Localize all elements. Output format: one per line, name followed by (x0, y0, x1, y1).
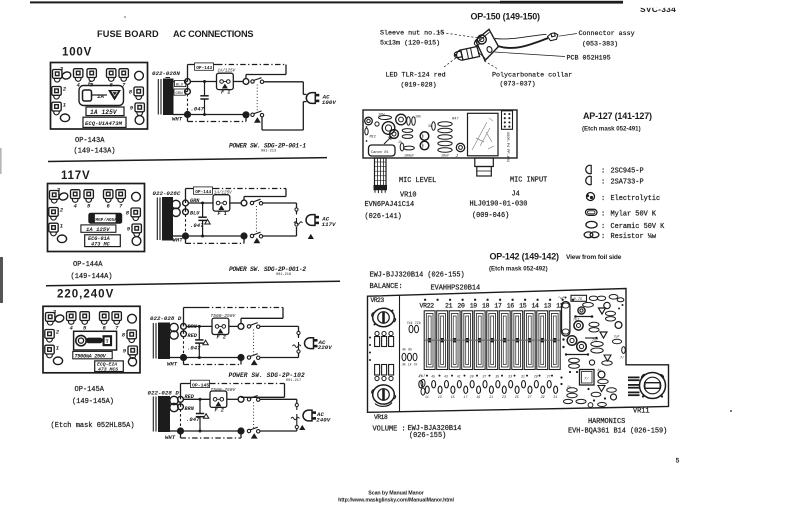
OP-150 bracket plate (476, 29, 499, 60)
pin connector block (502, 111, 513, 130)
fuse holder T500mA 220V (74, 331, 117, 350)
svg-text:4k 6k: 4k 6k (402, 348, 412, 353)
wiper trace across sliders (424, 339, 560, 341)
svg-text:43: 43 (444, 375, 448, 379)
svg-text:29: 29 (534, 375, 538, 379)
svg-text:OP-150 (149-150): OP-150 (149-150) (471, 12, 541, 22)
wire top loop with OP-144 tag (186, 188, 215, 190)
svg-text:1A 125V: 1A 125V (90, 109, 118, 116)
switch junction top 100V (243, 79, 249, 85)
IC chip (580, 370, 595, 386)
svg-text:5x13m (120-015): 5x13m (120-015) (380, 40, 440, 48)
label ECQ-E2A 473 MCS (95, 361, 124, 372)
svg-text:OP-145A: OP-145A (75, 386, 105, 394)
AP-127 board outline (363, 110, 517, 158)
wire to plug bottom 100V (261, 117, 263, 130)
terminal 5 (87, 69, 96, 82)
wire to plug bottom 117V (263, 235, 297, 237)
svg-text:MIC LEVEL: MIC LEVEL (399, 177, 436, 185)
leader LED (444, 58, 457, 68)
plug triangle marker 117V (309, 235, 314, 239)
svg-text:2SC945-P: 2SC945-P (611, 168, 644, 176)
component cluster on AP-127 (365, 117, 373, 125)
svg-text:OP-145: OP-145 (192, 382, 209, 388)
power switch S1 240V (247, 396, 260, 402)
svg-text:POWER SW. SDG-2P-001-1: POWER SW. SDG-2P-001-1 (229, 143, 306, 150)
wire top loop 220V (184, 307, 205, 309)
svg-text:17: 17 (494, 303, 502, 310)
svg-text:WHT: WHT (165, 434, 176, 441)
svg-text:MIC INPUT: MIC INPUT (510, 177, 547, 185)
svg-text:BRN: BRN (185, 406, 195, 412)
svg-text:FUSE BOARD: FUSE BOARD (97, 29, 159, 39)
svg-text:1A: 1A (97, 93, 104, 100)
jack mounting tab (475, 158, 494, 167)
svg-text:ECQ-U1A473M: ECQ-U1A473M (85, 120, 123, 127)
wire bottom dash-dot (187, 115, 189, 122)
resistor trio lower left (402, 353, 406, 361)
hole in plate (486, 46, 493, 53)
svg-text:19: 19 (470, 303, 478, 310)
leader connector (559, 34, 578, 37)
terminal 8 117V (131, 208, 140, 221)
svg-text:OP-144A: OP-144A (73, 261, 103, 269)
svg-text:7/: 7/ (584, 377, 589, 382)
svg-text:Canon 01: Canon 01 (371, 151, 389, 155)
svg-text:25: 25 (515, 395, 519, 399)
svg-text:F 1: F 1 (221, 90, 230, 96)
svg-text:(Etch mask 052-492): (Etch mask 052-492) (489, 266, 548, 273)
AC plug 117V (306, 215, 319, 226)
solder pad oval 220V (54, 314, 65, 323)
svg-text:PCB 052H195: PCB 052H195 (567, 55, 611, 63)
cap triangle marker 117V (205, 219, 210, 224)
svg-text:1PW: 1PW (378, 114, 385, 118)
svg-text::: : (601, 223, 605, 231)
terminal 4 117V (71, 190, 80, 203)
svg-text:EVN6PAJ41C14: EVN6PAJ41C14 (365, 201, 415, 209)
svg-text:VOLUME :: VOLUME : (373, 426, 406, 434)
svg-text:20: 20 (457, 303, 465, 310)
svg-text:45: 45 (431, 375, 435, 379)
svg-text:OP-144: OP-144 (195, 190, 211, 195)
connector pin bottom 240V (295, 425, 298, 428)
leader collar (484, 61, 498, 69)
VR10 pot rotor (382, 122, 395, 135)
OP-142 board outline (368, 289, 669, 413)
svg-text:GRN: GRN (175, 92, 183, 96)
svg-text:.047: .047 (186, 416, 200, 423)
resistor pair mid (421, 379, 425, 387)
svg-text:14: 14 (531, 303, 539, 310)
legend 2SC945-P (586, 165, 591, 173)
svg-text:117V: 117V (322, 221, 336, 228)
wire WHT rail 220V (186, 357, 238, 359)
wire label BLU (175, 80, 186, 86)
svg-text:VR23: VR23 (371, 297, 385, 304)
wire BLU rail (190, 81, 216, 83)
electrolytic cap C41 (562, 302, 570, 337)
speck top left (124, 16, 126, 18)
wire WHT rail (190, 114, 243, 116)
svg-text::: : (601, 168, 605, 176)
svg-text::: : (601, 179, 605, 187)
VR10 shaft (374, 158, 387, 193)
terminal 3 117V (50, 191, 59, 204)
svg-text:100V: 100V (62, 47, 92, 59)
svg-text:WHT: WHT (173, 237, 184, 244)
svg-text:WHT: WHT (167, 361, 178, 368)
wire to plug top 100V (264, 81, 304, 83)
mount hole top right (135, 71, 144, 80)
svg-text:(Etch mask 052-491): (Etch mask 052-491) (582, 126, 641, 133)
solder pad oval lower 117V (57, 235, 66, 243)
svg-text:21: 21 (445, 303, 453, 310)
leader PCB (495, 52, 566, 57)
svg-text:EVAHHPS20B14: EVAHHPS20B14 (431, 285, 481, 293)
svg-text:022-028 D: 022-028 D (150, 315, 182, 322)
label 1A 125V (86, 107, 124, 116)
svg-text:HLJ0190-01-030: HLJ0190-01-030 (470, 201, 528, 209)
left edge scan streak (0, 257, 3, 303)
label T500mA 250V (73, 351, 112, 358)
transformer T 117V (157, 198, 172, 241)
solder pad oval lower 220V (53, 357, 62, 365)
VR10 arrow (384, 137, 392, 145)
solder pad oval 117V (58, 192, 69, 201)
svg-text:11: 11 (425, 395, 429, 399)
svg-text:7k7: 7k7 (419, 374, 426, 379)
svg-text:001-216: 001-216 (276, 273, 291, 277)
svg-text:27: 27 (528, 395, 532, 399)
connector pin bottom 220V (297, 350, 300, 353)
svg-text:2k: 2k (567, 385, 571, 389)
svg-text:T500-250V: T500-250V (211, 313, 237, 319)
svg-text:.047: .047 (191, 106, 205, 113)
terminal 3 (53, 70, 62, 83)
connector pin bottom 117V (295, 223, 298, 226)
svg-text:21: 21 (489, 395, 493, 399)
svg-text:"uF: "uF (558, 296, 565, 301)
terminal 1 (52, 102, 61, 115)
svg-text:17: 17 (464, 395, 468, 399)
svg-text:7uF: 7uF (614, 335, 620, 339)
terminal 6 (107, 69, 116, 82)
transformer tap loops 240V (170, 396, 178, 404)
OP-142 left column divider (399, 295, 401, 412)
junction BRN 220V (181, 324, 187, 330)
svg-text:41: 41 (457, 375, 461, 379)
junction WHT 117V (173, 235, 186, 237)
svg-text:29: 29 (541, 395, 545, 399)
svg-text:LED TLR-124 red: LED TLR-124 red (386, 72, 446, 80)
connector pin top 220V (297, 331, 300, 334)
pad dots above sliders (424, 299, 426, 301)
slide potentiometers VR22-VR12 (424, 311, 435, 370)
fuse F1 117V (213, 195, 230, 211)
svg-text:F 2: F 2 (217, 335, 226, 341)
mic jack J4 body (468, 113, 499, 156)
svg-text:15: 15 (451, 395, 455, 399)
svg-text:HARMONICS: HARMONICS (588, 418, 625, 426)
svg-text:10k: 10k (415, 115, 421, 119)
capacitor .047 240V (196, 399, 204, 431)
connector pin top 240V (295, 403, 298, 406)
switch junction top 240V (238, 396, 244, 402)
connector assy drawing (548, 33, 558, 41)
mount hole bottom right (135, 116, 144, 125)
svg-text:23: 23 (502, 395, 506, 399)
svg-text:0-75: 0-75 (574, 298, 583, 302)
svg-text:(019-028): (019-028) (401, 82, 437, 90)
wire junction bus vertical (187, 65, 189, 82)
svg-text:VR18: VR18 (374, 414, 388, 421)
svg-text:19: 19 (476, 395, 480, 399)
connector pin top 117V (295, 208, 298, 211)
svg-text:R47: R47 (452, 118, 459, 122)
svg-text:39: 39 (470, 375, 474, 379)
wire bus vertical 220V (183, 308, 185, 327)
svg-text:AP-127 (141-127): AP-127 (141-127) (583, 111, 652, 121)
svg-text:2SA733-P: 2SA733-P (611, 179, 644, 187)
svg-text:7k7: 7k7 (573, 318, 580, 323)
svg-text:16: 16 (507, 303, 515, 310)
section separator line (48, 158, 327, 162)
svg-text:100uF: 100uF (404, 155, 415, 159)
terminal 4 220V (67, 312, 76, 325)
terminal 5 117V (84, 190, 93, 203)
junction WHT 220V (170, 357, 184, 359)
transformer T 100V (158, 78, 173, 115)
solder pad oval lower (60, 114, 69, 122)
terminal 6 220V (100, 312, 109, 325)
svg-text:F 1: F 1 (218, 211, 227, 217)
svg-text:VR22: VR22 (420, 303, 435, 310)
AC plug 240V (303, 410, 316, 421)
VR10 pot body (369, 145, 396, 156)
svg-text:3k 1k 7k: 3k 1k 7k (402, 363, 417, 367)
svg-text:VR10: VR10 (400, 192, 417, 200)
wire to plug bottom 220V (260, 357, 299, 359)
terminal 4 (74, 69, 83, 82)
svg-text:T500mA 250V: T500mA 250V (75, 353, 107, 359)
switch junction top 220V (238, 324, 244, 330)
svg-text:240V: 240V (316, 416, 330, 423)
resistor row under sliders (419, 381, 423, 388)
label ECQ-U1A473M (83, 117, 126, 127)
mount hole bottom right 117V (132, 237, 141, 246)
transformer T 240V (153, 397, 169, 432)
terminal 2 (52, 87, 61, 100)
svg-text:AC CONNECTIONS: AC CONNECTIONS (173, 29, 253, 39)
terminal 9 117V (132, 224, 141, 237)
svg-text::: : (601, 233, 605, 241)
junction BRN 240V (178, 404, 184, 410)
svg-text:13: 13 (544, 303, 552, 310)
svg-text:(053-383): (053-383) (582, 41, 618, 49)
svg-text:Connector assy: Connector assy (579, 30, 635, 38)
wire to plug top 240V (260, 398, 297, 400)
svg-text:OP-143A: OP-143A (75, 137, 105, 145)
svg-text:EWJ-BJJ320B14 (026-155): EWJ-BJJ320B14 (026-155) (370, 272, 465, 280)
transformer tap loops 220V (170, 323, 178, 331)
svg-text:http://www.maskglinsky.com/Man: http://www.maskglinsky.com/ManualManor.h… (338, 498, 454, 504)
fuse board OP-144A outline (48, 184, 145, 252)
fuse F1 100V (217, 73, 234, 89)
label 1A 125V 117V (81, 225, 116, 232)
svg-text:(009-046): (009-046) (472, 212, 509, 220)
junction WHT 240V (170, 430, 181, 432)
svg-text:18: 18 (482, 303, 490, 310)
pad dots column (369, 337, 371, 339)
svg-text:001-217: 001-217 (286, 379, 301, 383)
svg-text:OSA: OSA (109, 218, 117, 223)
svg-text:1: 1 (60, 223, 63, 230)
terminal 3 220V (46, 313, 55, 326)
svg-text:3k: 3k (428, 124, 432, 128)
svg-text:31: 31 (553, 395, 557, 399)
terminal 8 220V (127, 330, 136, 343)
svg-text:MIC: MIC (370, 136, 377, 140)
fuse board OP-145A outline (43, 306, 140, 373)
svg-text:1A 125V: 1A 125V (86, 226, 110, 233)
components around IC (567, 388, 577, 392)
svg-text:022-028C: 022-028C (153, 190, 181, 197)
solder pad oval (61, 71, 72, 80)
transformer tap loops 117V (172, 200, 180, 208)
pot VR11 (640, 373, 666, 399)
svg-text:10uF: 10uF (441, 155, 450, 159)
svg-text:(073-037): (073-037) (500, 81, 536, 89)
svg-text::: : (601, 211, 605, 219)
wire bottom dash-dot 240V (180, 431, 182, 438)
terminal 1 117V (49, 223, 58, 236)
fuse F holder (79, 86, 124, 106)
mount hole top right 220V (128, 314, 137, 323)
svg-text:EVH-BQA361 B14 (026-159): EVH-BQA361 B14 (026-159) (568, 427, 667, 435)
terminal 6 117V (104, 190, 113, 203)
svg-text:1: 1 (63, 102, 66, 109)
LED tip (454, 51, 462, 58)
section separator line 2 (46, 281, 340, 286)
svg-text:1k: 1k (398, 140, 402, 144)
terminal 7 117V (116, 190, 125, 203)
svg-text:37: 37 (483, 375, 487, 379)
terminal 2 220V (45, 330, 54, 343)
sleeve nut on plate (477, 35, 486, 44)
svg-text:473 MCS: 473 MCS (98, 366, 118, 372)
svg-text:MGP: MGP (96, 218, 104, 223)
svg-text:27: 27 (547, 375, 551, 379)
svg-text:Resistor ¼w: Resistor ¼w (611, 233, 657, 241)
svg-text:1A/125V: 1A/125V (218, 69, 236, 74)
capacitor .047 220V (195, 326, 203, 357)
AC plug 220V (305, 338, 318, 349)
terminal 9 220V (128, 346, 137, 359)
svg-text:15: 15 (519, 303, 527, 310)
AC plug 100V (306, 93, 319, 104)
wire bus vertical 117V (185, 189, 187, 204)
junction BLU (185, 79, 191, 85)
fuse board OP-143A outline (51, 63, 148, 130)
terminal 2 117V (49, 208, 58, 221)
svg-text:35: 35 (495, 375, 499, 379)
wire WHT rail 240V (183, 430, 238, 432)
legend ceramic (586, 221, 597, 228)
junction GRN (185, 89, 191, 95)
jumper wire with dots (574, 315, 577, 318)
terminal 7 (119, 69, 128, 82)
svg-text:001-213: 001-213 (261, 150, 276, 154)
wire RED rail 240V (183, 398, 210, 400)
wire GRN rail 117V (188, 202, 213, 204)
wire bottom dash-dot 220V (183, 358, 185, 365)
solder pads VR11 (628, 377, 640, 382)
svg-text:OP-143: OP-143 (196, 66, 212, 71)
resistor pair upper left (409, 325, 413, 333)
components second row right (583, 303, 594, 308)
component row top right (571, 295, 587, 301)
junction BLU 117V (183, 209, 189, 215)
svg-text:100V: 100V (322, 99, 336, 106)
legend mylar (586, 209, 598, 215)
fuse F2 220V (212, 318, 229, 334)
mount hole top right 117V (132, 192, 141, 201)
wire to plug top 117V (263, 202, 297, 204)
svg-text:33: 33 (508, 375, 512, 379)
power switch S1 117V (250, 199, 262, 205)
svg-text:J4: J4 (512, 191, 520, 199)
svg-text:(026-141): (026-141) (365, 213, 402, 221)
svg-text:RED: RED (188, 333, 198, 339)
svg-text:74k 72k: 74k 72k (407, 321, 421, 326)
cap triangle marker 220V (203, 340, 208, 345)
svg-text:.047: .047 (187, 345, 201, 352)
switch junction bottom 220V (238, 355, 244, 361)
svg-text:.047: .047 (190, 222, 204, 229)
junction RED 220V (181, 331, 187, 337)
svg-text:7x7: 7x7 (592, 338, 598, 342)
svg-text:117V: 117V (61, 170, 90, 182)
pot VR18 (373, 385, 395, 404)
junction GRN 117V (183, 200, 189, 206)
transistor cluster mid right (574, 321, 583, 330)
svg-text::: : (601, 195, 605, 203)
wire WHT rail 117V (188, 235, 241, 237)
connector block upper (375, 331, 379, 335)
svg-text:220,240V: 220,240V (57, 289, 114, 301)
terminal 7 220V (112, 312, 121, 325)
capacitor .047 117V (198, 203, 206, 236)
svg-text:220V: 220V (318, 344, 332, 351)
svg-text:Electrolytic: Electrolytic (611, 195, 661, 203)
power switch S1 220V (247, 323, 260, 329)
svg-text:Ceramic 50V K: Ceramic 50V K (611, 223, 666, 231)
svg-text:1A/125V: 1A/125V (214, 191, 232, 196)
svg-text:BALANCE:: BALANCE: (370, 283, 403, 291)
components lower mid right (566, 354, 588, 356)
leader to sleeve nut (438, 32, 478, 38)
legend resistor (584, 232, 593, 238)
svg-text:(149-145A): (149-145A) (72, 398, 114, 406)
wire to plug top 220V (260, 325, 299, 327)
terminal 1 220V (45, 345, 54, 358)
svg-text:WHT: WHT (172, 116, 183, 123)
wire to plug bottom 240V (260, 430, 297, 432)
svg-text:022-028 D: 022-028 D (148, 390, 180, 397)
mount hole bottom right 220V (128, 358, 136, 366)
wire bus vertical 240V (180, 384, 182, 400)
